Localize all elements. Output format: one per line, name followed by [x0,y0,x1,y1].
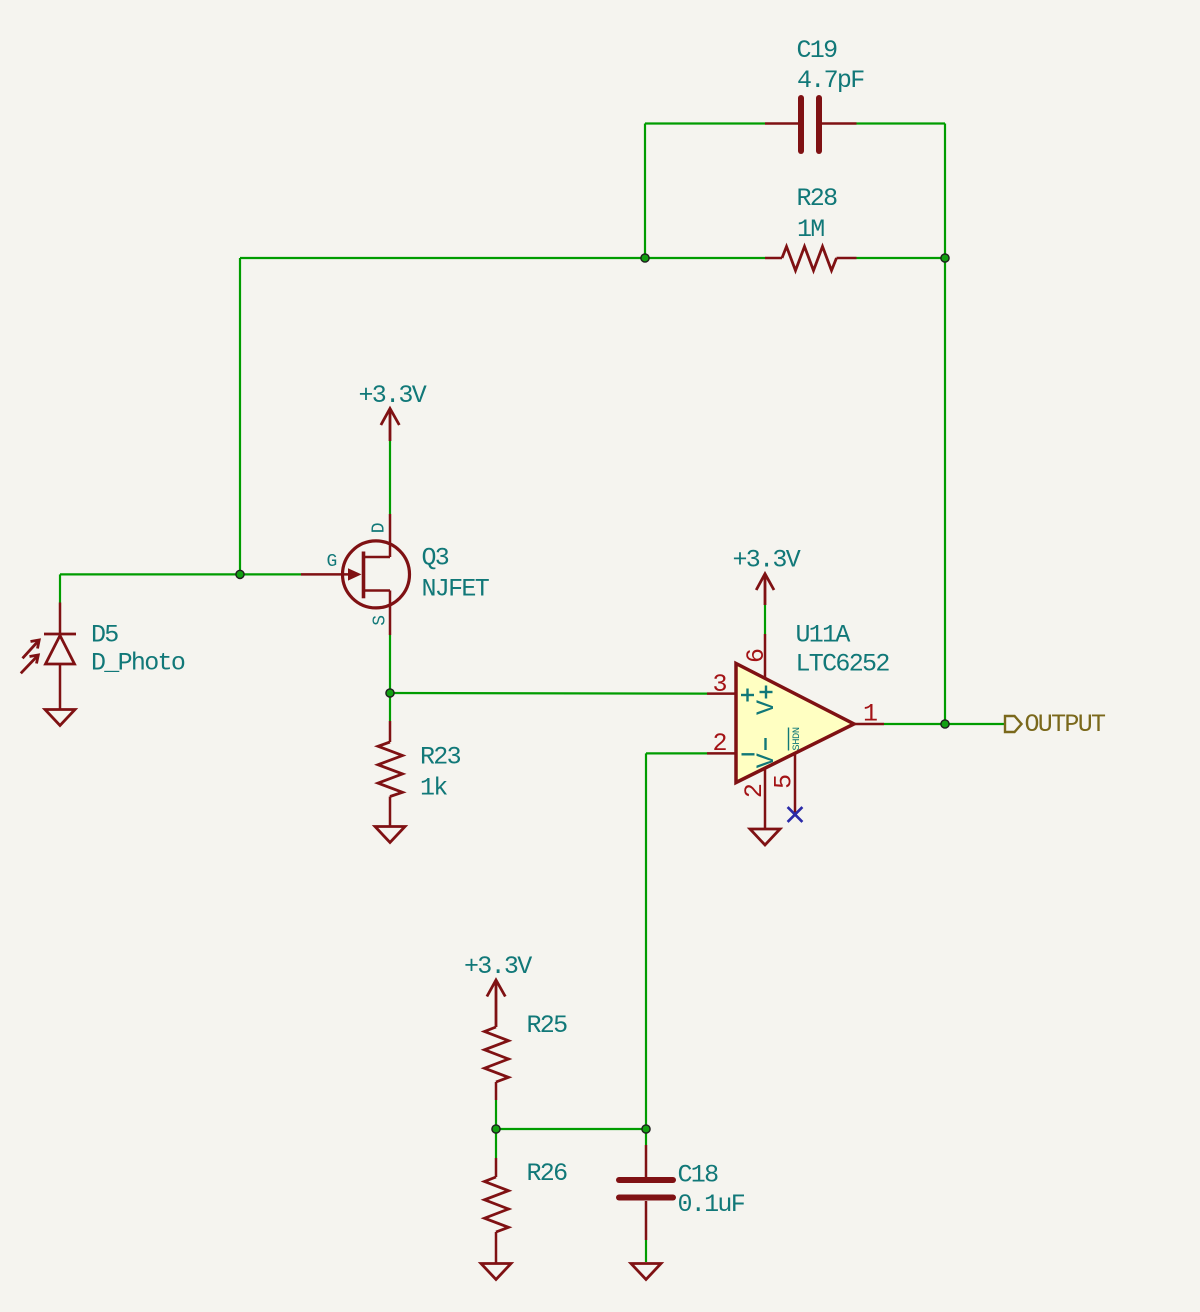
resistor R23 [378,721,403,827]
capacitor C18 [619,1145,673,1240]
wire C19 right horizontal [857,122,946,124]
svg-text:6: 6 [742,649,771,663]
svg-text:R25: R25 [527,1011,568,1040]
svg-text:5: 5 [770,775,799,789]
svg-text:OUTPUT: OUTPUT [1025,710,1107,739]
svg-text:R23: R23 [420,743,461,772]
svg-text:+3.3V: +3.3V [464,952,532,981]
pin name - input [742,753,755,755]
svg-text:1k: 1k [420,774,447,803]
junction node bias left [492,1125,500,1133]
junction node C19/R28 left [641,254,649,262]
svg-text:+3.3V: +3.3V [733,546,801,575]
wire C19 left horizontal [645,122,765,124]
wire node to C18 top [645,1129,647,1145]
power +3.3V above R25 [487,980,505,1027]
wire right vertical feedback to output [944,258,946,724]
svg-text:2: 2 [740,784,769,798]
transistor Q3 body [301,514,390,635]
svg-text:G: G [327,552,337,572]
wire output to label [884,723,1004,725]
svg-text:4.7pF: 4.7pF [797,66,864,95]
wire bias node horizontal [496,1128,646,1130]
svg-text:LTC6252: LTC6252 [796,650,890,679]
junction node C19/R28 right [941,254,949,262]
wire photodiode top stub [59,574,61,602]
wire op-amp pin2 horizontal [646,752,707,754]
wire C18 bottom to ground [645,1240,647,1262]
wire C19 right branch vertical [944,124,946,259]
svg-text:+3.3V: +3.3V [359,381,427,410]
ground under D5 [45,710,75,726]
resistor R25 [485,1027,509,1100]
svg-text:1: 1 [863,699,877,728]
wire source node to op-amp pin3 [390,692,707,695]
svg-text:D_Photo: D_Photo [91,649,185,678]
wire pin2 vertical down to bias node [645,753,647,1129]
svg-text:R26: R26 [527,1159,568,1188]
capacitor C19 [765,98,857,151]
wire +3.3V to op-amp pin6 [764,605,766,634]
svg-text:D: D [369,523,389,533]
svg-text:0.1uF: 0.1uF [678,1190,745,1219]
wire +3.3V to Q3 drain [389,441,391,514]
resistor R26 [485,1158,509,1263]
op-amp U11A [707,634,884,829]
wire source node to R23 [389,693,391,721]
svg-text:D5: D5 [91,621,118,650]
transistor Q2 circle [343,541,410,608]
resistor R28 [765,247,857,271]
wire Q3 source to node [389,635,391,693]
svg-text:C19: C19 [797,36,838,65]
svg-text:Q3: Q3 [422,544,449,573]
svg-text:V: V [752,700,781,715]
svg-text:R28: R28 [797,184,838,213]
svg-text:V: V [752,753,781,768]
wire feedback top horizontal left of R28 [240,257,765,259]
wire photodiode to gate node [60,573,301,575]
wire feedback top horizontal right of R28 [857,257,946,259]
junction node source [386,689,394,697]
pin name V+ [752,686,781,716]
svg-text:U11A: U11A [796,621,851,650]
junction node gate [236,570,244,578]
wire node to R26 top [495,1129,497,1158]
hierarchical label OUTPUT [1005,710,1106,739]
svg-text:C18: C18 [678,1161,719,1190]
svg-text:2: 2 [713,729,727,758]
power +3.3V above Q3 [381,409,399,442]
svg-text:SHDN: SHDN [791,727,803,750]
ground under C18 [631,1264,661,1280]
ground under R26 [481,1264,511,1280]
svg-text:3: 3 [713,670,727,699]
svg-text:S: S [370,616,390,626]
svg-text:NJFET: NJFET [422,575,490,604]
pin name V- [752,738,781,768]
wire R25 bottom to node [495,1100,497,1129]
wire C19 left branch vertical [644,124,646,259]
pin name + input [741,689,754,702]
ground under op-amp [750,829,780,845]
junction node bias right [642,1125,650,1133]
photodiode D5 [21,603,76,710]
wire left vertical from feedback to gate node [239,258,241,574]
junction node output [941,720,949,728]
svg-text:1M: 1M [797,215,824,244]
no-connect X pin5 [788,807,803,822]
ground under R23 [375,827,405,843]
power +3.3V above op-amp [756,574,774,605]
pin name SHDN [789,727,804,750]
